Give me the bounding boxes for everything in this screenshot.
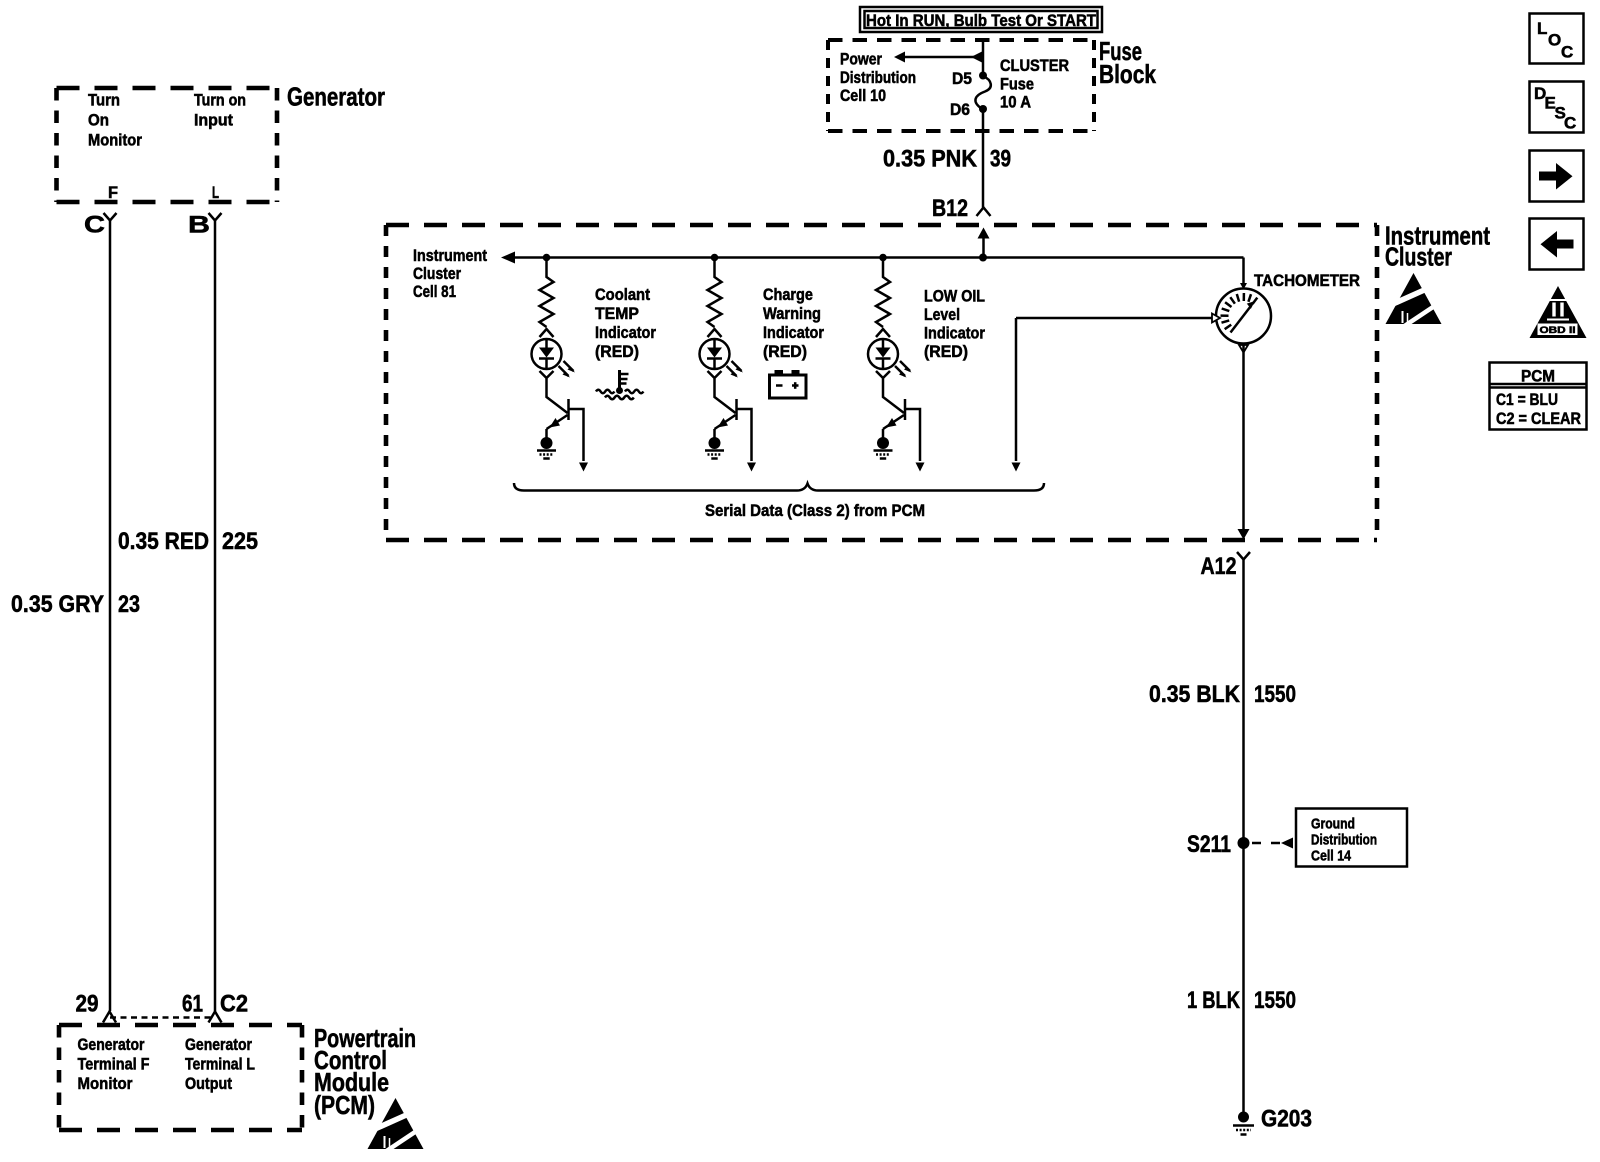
svg-text:Cluster: Cluster — [413, 264, 461, 283]
svg-text:1 BLK: 1 BLK — [1187, 987, 1241, 1014]
svg-text:Output: Output — [185, 1074, 232, 1093]
svg-text:Generator: Generator — [287, 82, 385, 112]
svg-text:F: F — [108, 183, 118, 202]
svg-text:Terminal L: Terminal L — [185, 1055, 255, 1074]
svg-text:D6: D6 — [950, 100, 970, 119]
svg-text:C1 = BLU: C1 = BLU — [1496, 390, 1558, 409]
svg-text:0.35 PNK: 0.35 PNK — [883, 146, 978, 173]
svg-text:Level: Level — [924, 305, 960, 324]
svg-text:(PCM): (PCM) — [314, 1090, 375, 1120]
svg-text:LOW OIL: LOW OIL — [924, 287, 985, 306]
svg-text:(RED): (RED) — [924, 342, 968, 361]
svg-text:1550: 1550 — [1254, 681, 1296, 708]
svg-text:Warning: Warning — [763, 304, 821, 323]
svg-text:Turn on: Turn on — [194, 91, 246, 110]
svg-text:B12: B12 — [932, 195, 968, 222]
svg-text:TACHOMETER: TACHOMETER — [1254, 271, 1360, 290]
svg-text:C: C — [1564, 114, 1576, 133]
svg-text:0.35 GRY: 0.35 GRY — [11, 591, 104, 618]
svg-text:61: 61 — [182, 991, 203, 1018]
svg-text:0.35 BLK: 0.35 BLK — [1149, 681, 1241, 708]
svg-text:S211: S211 — [1187, 831, 1231, 858]
svg-text:Power: Power — [840, 50, 882, 69]
svg-text:C: C — [1561, 43, 1573, 62]
svg-text:Instrument: Instrument — [413, 246, 487, 265]
svg-text:OBD II: OBD II — [1540, 325, 1576, 335]
svg-text:Indicator: Indicator — [924, 324, 985, 343]
svg-text:Monitor: Monitor — [88, 131, 142, 150]
svg-text:Monitor: Monitor — [78, 1074, 133, 1093]
svg-text:225: 225 — [222, 528, 258, 555]
svg-text:0.35 RED: 0.35 RED — [118, 528, 209, 555]
svg-text:B: B — [188, 212, 210, 239]
svg-text:Hot In RUN, Bulb Test Or START: Hot In RUN, Bulb Test Or START — [866, 11, 1097, 30]
svg-text:(RED): (RED) — [763, 342, 807, 361]
svg-text:Cluster: Cluster — [1385, 242, 1452, 272]
svg-text:Cell 10: Cell 10 — [840, 86, 886, 105]
svg-text:C: C — [84, 212, 105, 239]
svg-text:23: 23 — [118, 591, 140, 618]
svg-text:C2: C2 — [220, 991, 248, 1018]
svg-text:Turn: Turn — [88, 91, 120, 110]
svg-text:L: L — [212, 183, 219, 202]
svg-text:D5: D5 — [952, 69, 972, 88]
svg-text:G203: G203 — [1261, 1106, 1312, 1133]
svg-text:Input: Input — [194, 111, 233, 130]
svg-text:CLUSTER: CLUSTER — [1000, 56, 1069, 75]
svg-text:Cell 14: Cell 14 — [1311, 848, 1352, 865]
svg-text:Cell 81: Cell 81 — [413, 282, 456, 301]
svg-text:C2 = CLEAR: C2 = CLEAR — [1496, 409, 1581, 428]
svg-text:10 A: 10 A — [1000, 93, 1031, 112]
svg-text:Generator: Generator — [78, 1035, 145, 1054]
svg-text:Serial Data (Class 2) from PCM: Serial Data (Class 2) from PCM — [705, 501, 925, 520]
svg-text:TEMP: TEMP — [595, 304, 639, 323]
svg-text:O: O — [1548, 31, 1561, 50]
svg-text:Charge: Charge — [763, 285, 813, 304]
svg-text:(RED): (RED) — [595, 342, 639, 361]
svg-text:On: On — [88, 111, 109, 130]
svg-text:Indicator: Indicator — [763, 323, 824, 342]
svg-text:Block: Block — [1099, 59, 1156, 89]
svg-text:Ground: Ground — [1311, 816, 1355, 833]
svg-text:Coolant: Coolant — [595, 285, 650, 304]
svg-text:1550: 1550 — [1254, 987, 1296, 1014]
svg-text:29: 29 — [76, 991, 99, 1018]
svg-text:Distribution: Distribution — [840, 68, 916, 87]
svg-text:39: 39 — [990, 146, 1011, 173]
svg-text:Generator: Generator — [185, 1035, 252, 1054]
svg-text:Terminal F: Terminal F — [78, 1055, 150, 1074]
svg-text:Fuse: Fuse — [1000, 75, 1034, 94]
svg-text:L: L — [1537, 19, 1547, 38]
svg-text:A12: A12 — [1201, 553, 1237, 580]
svg-text:Indicator: Indicator — [595, 323, 656, 342]
svg-text:PCM: PCM — [1521, 367, 1555, 386]
svg-text:Distribution: Distribution — [1311, 832, 1377, 849]
